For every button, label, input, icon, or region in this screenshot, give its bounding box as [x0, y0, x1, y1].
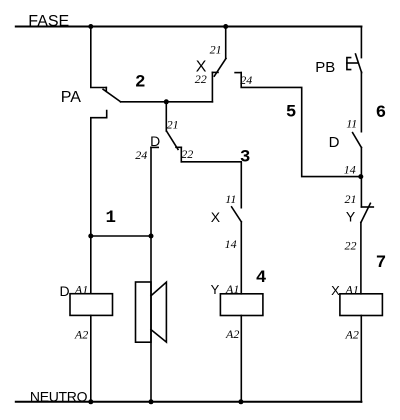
contact D terminal 22 tick: [176, 146, 181, 148]
svg-text:21: 21: [345, 192, 357, 206]
svg-text:A1: A1: [345, 282, 359, 296]
svg-text:3: 3: [240, 147, 251, 167]
wire: PB to D 11-14: [360, 72, 362, 132]
svg-text:PB: PB: [315, 59, 335, 76]
svg-text:7: 7: [376, 253, 387, 273]
wire: Y 21-22 to coil X: [360, 223, 362, 294]
svg-text:22: 22: [181, 147, 193, 161]
wire: D-24 drop to node 1: [150, 147, 152, 236]
svg-text:2: 2: [135, 73, 146, 93]
contact Y 21-22 blade: [361, 203, 371, 222]
svg-text:11: 11: [346, 117, 357, 131]
node dot NEUTRO/coil D: [88, 399, 93, 404]
wire: coil X to NEUTRO: [360, 316, 362, 403]
svg-text:1: 1: [106, 208, 117, 228]
svg-text:4: 4: [256, 268, 267, 288]
node dot wire1 right: [149, 234, 154, 239]
contact Y 21-22 tick: [361, 206, 373, 208]
node dot wire5/branch F: [358, 174, 363, 179]
pushbutton PB blade: [356, 54, 362, 73]
pushbutton PB actuator bracket: [347, 58, 351, 70]
contact D blade: [167, 131, 179, 149]
coil X box: [340, 294, 383, 316]
contact D terminal 22 lead: [180, 147, 182, 162]
contact D terminal 24 tick: [151, 146, 158, 148]
wire: D 11-14 to junction: [360, 148, 362, 177]
svg-text:Y: Y: [211, 282, 220, 297]
contact D 11-14 blade: [353, 133, 362, 148]
svg-text:21: 21: [167, 117, 179, 131]
svg-text:NEUTRO: NEUTRO: [30, 388, 88, 404]
wire: branch F drop from FASE: [360, 27, 362, 58]
svg-text:A2: A2: [225, 327, 239, 341]
svg-text:D: D: [329, 134, 340, 151]
node dot NEUTRO/coil Y: [238, 399, 243, 404]
contact PA NO-throw stub to node 1: [91, 111, 107, 236]
svg-text:D: D: [60, 283, 70, 299]
svg-text:Y: Y: [346, 208, 356, 224]
svg-text:X: X: [331, 283, 340, 298]
coil Y box: [220, 294, 263, 316]
svg-text:A2: A2: [345, 327, 359, 341]
wire 2 (node 2 horizontal): [121, 101, 213, 103]
svg-text:24: 24: [135, 148, 147, 162]
wire: node 1 through horn to NEUTRO: [150, 236, 152, 402]
svg-text:A1: A1: [74, 282, 88, 296]
node dot wire1 left: [88, 234, 93, 239]
wire: branch A drop from FASE: [91, 27, 107, 88]
svg-text:A2: A2: [74, 327, 88, 341]
contact PA (changeover pushbutton), fixed tick: [105, 88, 107, 92]
wire: X 11-14 to coil Y: [240, 222, 242, 294]
svg-text:PA: PA: [61, 89, 81, 106]
contact X terminal 24 tick: [235, 72, 241, 74]
svg-text:FASE: FASE: [28, 13, 69, 30]
NEUTRO rail: [16, 401, 362, 403]
svg-text:24: 24: [240, 73, 252, 87]
contact D 21-22/24 common lead: [165, 102, 167, 131]
wire: junction to Y 21-22: [360, 177, 362, 207]
coil D box: [70, 294, 113, 316]
node dot wire2/contact D: [164, 99, 169, 104]
svg-text:11: 11: [225, 192, 236, 206]
wire 1 (node 1 horizontal): [91, 235, 151, 237]
svg-text:14: 14: [225, 237, 237, 251]
contact X blade: [214, 58, 226, 76]
svg-text:22: 22: [195, 72, 207, 86]
contact X terminal 22 tick: [212, 71, 218, 73]
wire 3: [181, 162, 241, 208]
svg-text:D: D: [150, 133, 160, 149]
wire: coil D to NEUTRO: [90, 315, 92, 402]
contact X 11-14 blade: [232, 207, 242, 222]
svg-text:21: 21: [210, 42, 222, 56]
svg-text:14: 14: [344, 162, 356, 176]
svg-text:A1: A1: [225, 282, 239, 296]
wire: coil Y to NEUTRO: [240, 316, 242, 403]
wire: node 1 to coil D: [90, 236, 92, 294]
node dot FASE/branch A: [88, 24, 93, 29]
svg-text:6: 6: [376, 103, 387, 123]
svg-text:5: 5: [286, 103, 297, 123]
node dot NEUTRO/horn: [149, 399, 154, 404]
FASE rail: [16, 26, 362, 28]
wire 5: X-24 to junction below D 11-14: [241, 73, 361, 177]
node dot FASE/contact X: [223, 24, 228, 29]
svg-text:22: 22: [345, 238, 357, 252]
contact X terminal 22 lead to wire 2: [211, 72, 213, 101]
contact PA blade: [103, 89, 121, 102]
horn H1 flare: [151, 282, 166, 342]
horn H1 body: [136, 282, 152, 342]
svg-text:X: X: [211, 209, 221, 225]
pushbutton PB plunger rod: [347, 62, 358, 64]
contact X 21-22/24 common lead: [225, 27, 227, 59]
